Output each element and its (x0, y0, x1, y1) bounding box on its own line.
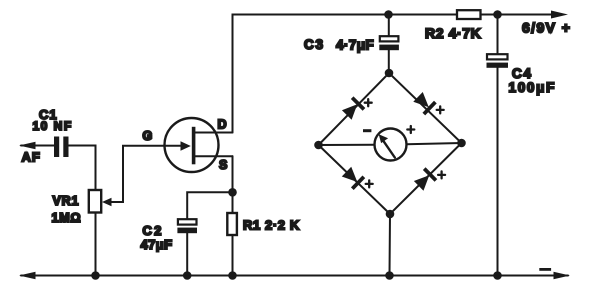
label D4 plus (438, 171, 445, 178)
svg-text:C4: C4 (512, 66, 532, 81)
resistor R1 (227, 213, 237, 235)
capacitor C3 (379, 15, 399, 74)
arrowhead ground left (19, 272, 36, 280)
wire top supply rail (233, 15, 554, 133)
wire bridge frame (319, 73, 462, 276)
node bridge bottom (386, 210, 395, 219)
diode D2 top-right (412, 91, 436, 115)
label minus supply (539, 268, 551, 271)
node ground bridge (385, 271, 394, 280)
svg-text:10 NF: 10 NF (33, 119, 73, 133)
svg-text:S: S (219, 158, 227, 172)
transistor Q1 JFET (165, 118, 233, 172)
svg-text:R2 4·7K: R2 4·7K (425, 25, 481, 41)
wire C1 to VR1 (69, 146, 96, 191)
potentiometer VR1 (89, 190, 101, 213)
wire 6/9V arrowhead (551, 11, 568, 19)
label D1 plus (365, 99, 372, 106)
capacitor C2 (177, 219, 197, 275)
wire VR1 to ground rail (95, 213, 97, 276)
label D3 plus (366, 180, 373, 187)
arrowhead AF input (19, 142, 36, 150)
node ground C2 (183, 271, 192, 280)
node ground VR1 (91, 271, 100, 280)
wire meter to bridge right (407, 143, 462, 144)
wire ground rail (21, 275, 568, 277)
wire junction to C2 (187, 192, 232, 219)
node bridge right (457, 139, 466, 148)
node bridge left (314, 141, 323, 150)
node bridge top (385, 69, 394, 78)
meter M1 (375, 129, 407, 161)
svg-text:100μF: 100μF (509, 80, 557, 95)
svg-text:1MΩ: 1MΩ (52, 211, 82, 225)
diode D3 bottom-left (341, 166, 365, 190)
wire AF input (21, 145, 54, 147)
svg-text:C2: C2 (143, 223, 164, 238)
svg-text:D: D (218, 118, 227, 132)
node top rail / C3 tap (384, 10, 393, 19)
node ground C4 (493, 271, 502, 280)
wire source to R1 (232, 156, 234, 213)
node ground R1 (228, 271, 237, 280)
resistor R2 (457, 10, 481, 19)
arrowhead ground right (554, 272, 571, 280)
svg-text:G: G (143, 129, 153, 143)
wire bridge left to meter (319, 144, 375, 146)
diode D4 bottom-right (413, 167, 437, 191)
label D2 plus (437, 106, 444, 113)
arrowhead VR1 wiper (102, 198, 112, 207)
wire R1 to ground rail (232, 235, 234, 276)
capacitor C1 (54, 137, 69, 158)
svg-text:6/9V +: 6/9V + (522, 20, 571, 36)
wire VR1 wiper to gate (110, 146, 182, 202)
capacitor C4 (487, 15, 509, 276)
label meter minus (363, 129, 371, 132)
svg-text:VR1: VR1 (53, 194, 80, 208)
svg-text:AF: AF (22, 150, 41, 165)
svg-text:C3: C3 (304, 37, 325, 52)
node source junction (228, 188, 237, 197)
svg-text:R1 2·2 K: R1 2·2 K (243, 218, 300, 233)
node top rail / C4 tap (493, 10, 502, 19)
label meter plus (407, 126, 414, 133)
diode D1 top-left (341, 96, 365, 120)
svg-text:4·7μF: 4·7μF (336, 38, 374, 53)
svg-text:47μF: 47μF (141, 237, 173, 252)
